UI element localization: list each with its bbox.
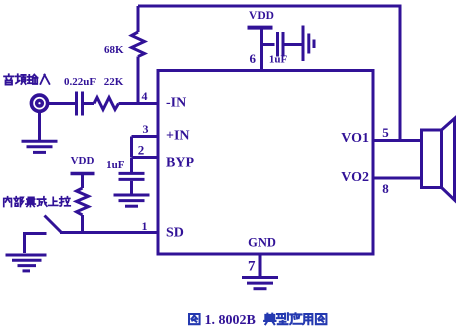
- ground C2: [114, 195, 150, 206]
- svg-text:SD: SD: [166, 226, 184, 241]
- svg-text:1uF: 1uF: [269, 54, 288, 66]
- svg-text:68K: 68K: [104, 44, 124, 56]
- svg-text:1. 8002B: 1. 8002B: [205, 313, 256, 328]
- capacitor C2 1uF: [119, 172, 145, 175]
- wire jack to C1: [49, 102, 76, 105]
- wire 68K top segment: [137, 6, 140, 32]
- IC U1 8002B body: [158, 71, 373, 255]
- label 内部集成上拉 (internal pull-up): [4, 197, 71, 207]
- resistor 68K: [132, 32, 145, 57]
- wire R2 to SD node: [81, 215, 84, 233]
- VDD rail bar: [248, 26, 273, 30]
- ground sideways (VDD cap): [303, 26, 314, 62]
- svg-text:3: 3: [143, 122, 149, 136]
- wire switch to ground: [23, 234, 26, 254]
- svg-text:4: 4: [142, 89, 148, 103]
- wire VDD bar to R2: [81, 174, 84, 189]
- speaker LS1 body: [422, 130, 442, 188]
- svg-text:GND: GND: [248, 236, 276, 250]
- wire jack ground stem: [38, 112, 41, 141]
- wire pin2 to C2: [130, 158, 133, 172]
- switch SW1 arm: [45, 216, 62, 233]
- capacitor C1 0.22uF: [75, 92, 78, 116]
- wire 68K bottom to -IN node: [137, 57, 140, 105]
- switch SW1 contact stub: [23, 232, 47, 235]
- ground switch (4 bars): [6, 255, 47, 271]
- svg-text:0.22uF: 0.22uF: [64, 76, 96, 88]
- input jack J1: [31, 95, 47, 111]
- svg-text:1uF: 1uF: [106, 159, 125, 171]
- svg-text:5: 5: [382, 125, 389, 140]
- wire GND pin 7: [259, 254, 262, 277]
- svg-text:VO2: VO2: [341, 170, 369, 185]
- svg-text:VO1: VO1: [341, 131, 369, 146]
- wire feedback top: from 68K top across to right then down to VO1: [138, 6, 400, 140]
- wire VDD to pin 6: [260, 28, 263, 69]
- speaker LS1 cone: [442, 119, 455, 201]
- wire BYP pin 2: [132, 156, 159, 159]
- svg-text:8: 8: [382, 181, 389, 196]
- wire VDD branch to C3: [262, 43, 275, 46]
- svg-text:6: 6: [250, 51, 257, 66]
- ground pin 7: [242, 278, 278, 289]
- wire pin3 to pin2 vertical: [130, 137, 133, 158]
- capacitor C3 1uF: [276, 32, 279, 57]
- wire SD pin 1: [60, 231, 158, 234]
- svg-text:VDD: VDD: [71, 155, 95, 167]
- svg-text:-IN: -IN: [166, 96, 186, 111]
- wire +IN pin 3: [132, 135, 159, 138]
- VDD rail bar (pull-up): [71, 172, 95, 176]
- label 音频输入 (audio input): [4, 74, 49, 84]
- svg-text:VDD: VDD: [249, 10, 274, 22]
- svg-text:2: 2: [138, 143, 145, 158]
- svg-text:22K: 22K: [104, 76, 124, 88]
- wire C1 to R1: [84, 102, 94, 105]
- svg-text:+IN: +IN: [166, 129, 190, 144]
- wire C3 to ground: [285, 43, 302, 46]
- resistor R1 22K: [94, 98, 119, 110]
- wire VO1 pin 5 to speaker: [373, 139, 422, 142]
- wire VO2 pin 8 to speaker: [373, 177, 422, 180]
- svg-text:BYP: BYP: [166, 156, 194, 171]
- svg-text:7: 7: [248, 259, 256, 275]
- ground input jack: [22, 141, 58, 152]
- wire C2 to ground: [130, 181, 133, 195]
- caption 图 1. 8002B 典型应用图: [189, 313, 326, 324]
- svg-text:1: 1: [142, 219, 148, 233]
- wire R1 to -IN pin 4: [119, 102, 159, 105]
- resistor R2 pull-up: [77, 188, 89, 215]
